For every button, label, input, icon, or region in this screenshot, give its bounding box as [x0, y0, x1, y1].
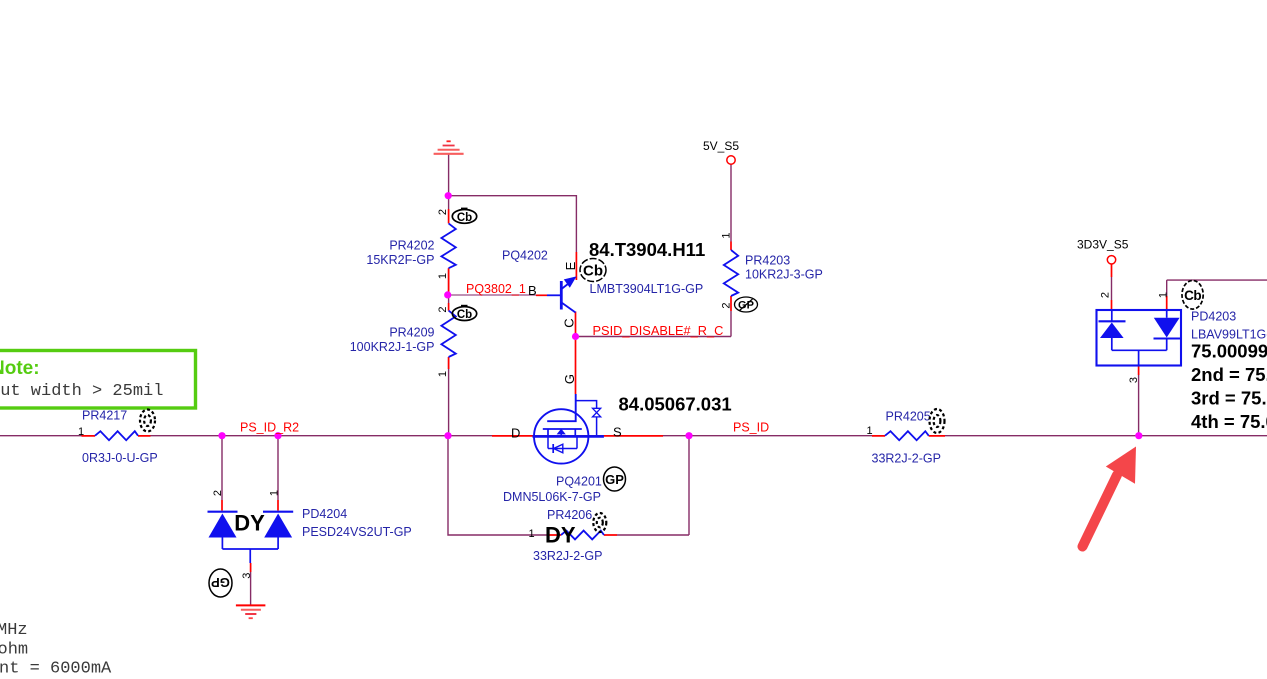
svg-text:MHz: MHz: [0, 621, 28, 640]
svg-text:2: 2: [437, 209, 449, 215]
svg-text:PR4217: PR4217: [82, 409, 127, 423]
svg-text:3: 3: [1128, 377, 1140, 383]
svg-text:Cb: Cb: [457, 212, 472, 224]
svg-text:PSID_DISABLE#_R_C: PSID_DISABLE#_R_C: [593, 323, 724, 338]
svg-text:1: 1: [1158, 292, 1170, 298]
svg-text:1: 1: [437, 371, 449, 377]
svg-text:33R2J-2-GP: 33R2J-2-GP: [872, 452, 941, 466]
svg-text:2: 2: [437, 306, 449, 312]
svg-text:0R3J-0-U-GP: 0R3J-0-U-GP: [82, 451, 158, 465]
svg-text:Note:: Note:: [0, 358, 40, 379]
svg-text:1: 1: [78, 426, 84, 438]
svg-text:LBAV99LT1G-: LBAV99LT1G-: [1191, 328, 1267, 342]
svg-text:B: B: [528, 283, 537, 298]
svg-text:nt = 6000mA: nt = 6000mA: [0, 659, 112, 678]
svg-text:1: 1: [437, 273, 449, 279]
svg-text:84.T3904.H11: 84.T3904.H11: [589, 239, 705, 260]
svg-text:LMBT3904LT1G-GP: LMBT3904LT1G-GP: [590, 282, 704, 296]
svg-text:33R2J-2-GP: 33R2J-2-GP: [533, 549, 602, 563]
svg-text:DY: DY: [234, 511, 265, 536]
svg-text:PESD24VS2UT-GP: PESD24VS2UT-GP: [302, 525, 412, 539]
svg-text:1: 1: [269, 490, 281, 496]
svg-text:G: G: [562, 374, 577, 384]
svg-text:1: 1: [529, 528, 535, 540]
svg-text:PS_ID_R2: PS_ID_R2: [240, 421, 299, 435]
svg-text:3D3V_S5: 3D3V_S5: [1077, 238, 1129, 252]
svg-text:5V_S5: 5V_S5: [703, 139, 739, 153]
svg-text:75.00099: 75.00099: [1191, 341, 1267, 362]
svg-text:1: 1: [867, 425, 873, 437]
svg-text:100KR2J-1-GP: 100KR2J-1-GP: [350, 340, 435, 354]
svg-text:C: C: [562, 318, 577, 327]
svg-text:S: S: [613, 425, 622, 440]
svg-text:PR4206: PR4206: [547, 508, 592, 522]
svg-text:DMN5L06K-7-GP: DMN5L06K-7-GP: [503, 490, 601, 504]
svg-text:15KR2F-GP: 15KR2F-GP: [366, 253, 434, 267]
svg-text:PR4202: PR4202: [389, 239, 434, 253]
svg-text:D: D: [511, 426, 520, 441]
svg-text:PQ3802_1: PQ3802_1: [466, 282, 526, 296]
svg-text:PD4204: PD4204: [302, 507, 347, 521]
svg-text:out width > 25mil: out width > 25mil: [0, 382, 163, 401]
svg-text:DY: DY: [545, 523, 576, 548]
svg-text:1: 1: [721, 232, 733, 238]
svg-text:10KR2J-3-GP: 10KR2J-3-GP: [745, 268, 823, 282]
svg-text:Cb: Cb: [457, 309, 472, 321]
svg-text:2: 2: [212, 490, 224, 496]
svg-text:GP: GP: [605, 472, 624, 487]
svg-text:Cb: Cb: [583, 263, 603, 280]
svg-text:4th = 75.0: 4th = 75.0: [1191, 411, 1267, 432]
svg-text:GP: GP: [211, 575, 230, 590]
svg-text:2: 2: [721, 302, 733, 308]
svg-text:2: 2: [1100, 292, 1112, 298]
svg-text:PQ4201: PQ4201: [556, 475, 602, 489]
svg-text:ohm: ohm: [0, 640, 28, 659]
svg-text:PR4209: PR4209: [389, 326, 434, 340]
svg-text:E: E: [563, 261, 578, 270]
svg-text:3rd = 75.0: 3rd = 75.0: [1191, 388, 1267, 409]
svg-text:Cb: Cb: [1184, 288, 1201, 303]
svg-text:84.05067.031: 84.05067.031: [619, 394, 732, 415]
svg-text:3: 3: [241, 573, 253, 579]
svg-text:PS_ID: PS_ID: [733, 421, 769, 435]
svg-text:PR4203: PR4203: [745, 254, 790, 268]
svg-text:2nd = 75.: 2nd = 75.: [1191, 364, 1267, 385]
svg-text:PQ4202: PQ4202: [502, 249, 548, 263]
svg-text:PR4205: PR4205: [886, 410, 931, 424]
svg-text:PD4203: PD4203: [1191, 310, 1236, 324]
